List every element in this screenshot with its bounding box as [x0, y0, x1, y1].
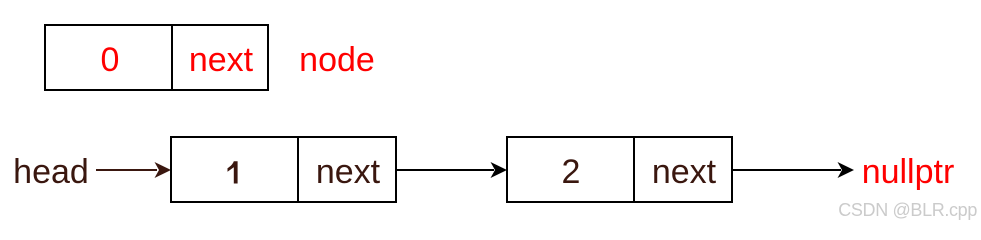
node1 divider — [297, 137, 299, 202]
svg-text:0: 0 — [101, 41, 120, 79]
svg-text:head: head — [13, 153, 89, 191]
wire node1 -> node2 — [397, 162, 507, 178]
node2 box — [507, 137, 732, 202]
value label 1 — [228, 161, 238, 183]
svg-text:nullptr: nullptr — [862, 153, 955, 191]
node1 box — [171, 137, 396, 202]
svg-text:next: next — [189, 41, 254, 79]
svg-text:CSDN @BLR.cpp: CSDN @BLR.cpp — [838, 200, 977, 220]
node box — [45, 25, 268, 90]
svg-text:next: next — [316, 153, 381, 191]
svg-text:node: node — [299, 41, 375, 79]
wire head -> node1 — [96, 162, 171, 178]
svg-text:2: 2 — [562, 153, 581, 191]
node2 divider — [633, 137, 635, 202]
node box divider — [171, 25, 173, 90]
wire node2 -> nullptr — [733, 162, 854, 178]
svg-text:next: next — [652, 153, 717, 191]
